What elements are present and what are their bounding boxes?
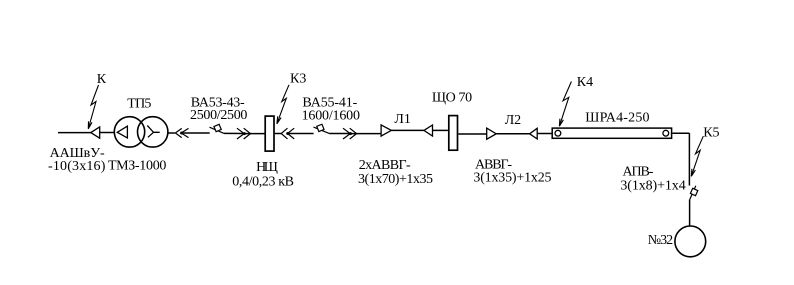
svg-text:К4: К4 [577,75,593,90]
svg-text:-10(3х16): -10(3х16) [48,159,106,174]
svg-text:3(1х8)+1х4: 3(1х8)+1х4 [620,179,685,194]
svg-text:ШРА4-250: ШРА4-250 [585,111,649,126]
svg-text:К3: К3 [290,72,306,87]
svg-text:Л1: Л1 [394,112,411,127]
svg-text:3(1х70)+1х35: 3(1х70)+1х35 [358,172,433,187]
svg-text:0,4/0,23 кВ: 0,4/0,23 кВ [232,175,294,190]
svg-text:ТП5: ТП5 [127,97,151,112]
svg-text:№32: №32 [648,233,673,248]
svg-text:2500/2500: 2500/2500 [190,108,247,123]
svg-text:НЩ: НЩ [256,160,278,175]
svg-text:ЩО 70: ЩО 70 [432,91,472,106]
svg-text:К: К [97,72,107,87]
svg-text:Л2: Л2 [505,113,522,128]
svg-text:АПВ-: АПВ- [623,165,654,180]
svg-text:1600/1600: 1600/1600 [302,109,360,124]
svg-text:2хАВВГ-: 2хАВВГ- [359,158,411,173]
svg-text:К5: К5 [703,126,719,141]
svg-text:3(1х35)+1х25: 3(1х35)+1х25 [473,171,551,186]
svg-text:ТМЗ-1000: ТМЗ-1000 [108,159,166,174]
